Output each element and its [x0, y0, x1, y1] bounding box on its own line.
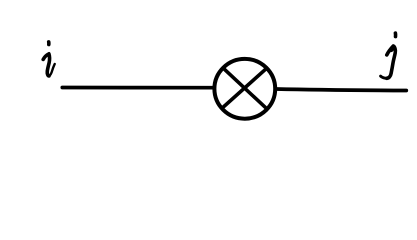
lamp (crossed-circle symbol) — [214, 59, 275, 119]
wire from lamp to node j — [276, 89, 406, 91]
node label j — [381, 33, 396, 78]
node label i — [43, 42, 55, 76]
wire from node i to lamp — [62, 86, 213, 90]
